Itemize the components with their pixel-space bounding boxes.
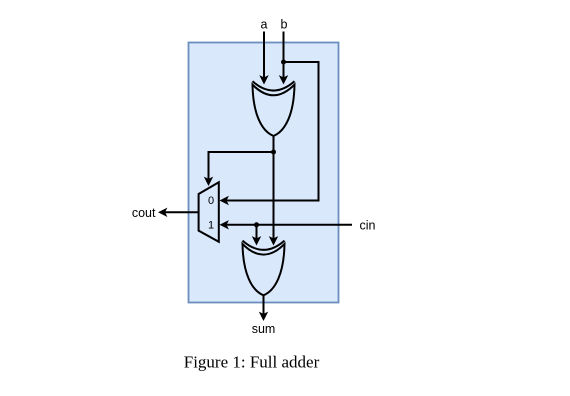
svg-text:b: b: [281, 18, 288, 32]
svg-text:0: 0: [208, 195, 214, 207]
svg-text:Figure 1: Full adder: Figure 1: Full adder: [184, 353, 320, 372]
svg-text:cin: cin: [360, 218, 376, 232]
svg-text:a: a: [261, 18, 268, 32]
svg-text:1: 1: [208, 220, 214, 232]
svg-text:sum: sum: [252, 322, 276, 336]
svg-text:cout: cout: [132, 206, 156, 220]
